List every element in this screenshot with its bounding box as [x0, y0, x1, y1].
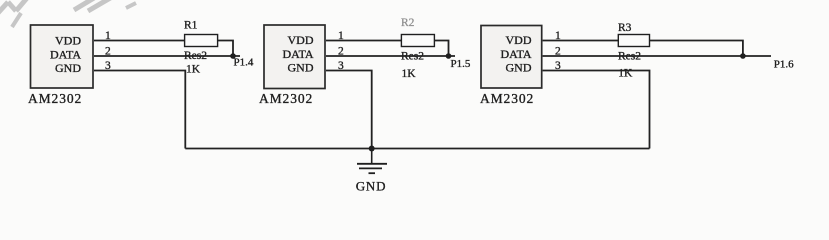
- svg-text:DATA: DATA: [500, 47, 531, 61]
- resistor R1: [185, 35, 218, 47]
- junction dot at P1.4 node: [230, 53, 236, 59]
- AM2302 module 1 body: [31, 25, 94, 88]
- wire: module2 DATA pin2 to node P1.5: [326, 55, 455, 57]
- scan artifact marks top-left (decorative): [0, 0, 136, 27]
- svg-text:DATA: DATA: [50, 48, 81, 62]
- svg-text:VDD: VDD: [506, 33, 532, 47]
- svg-text:1K: 1K: [618, 68, 633, 80]
- svg-text:AM2302: AM2302: [259, 91, 313, 106]
- svg-text:GND: GND: [506, 61, 532, 75]
- svg-text:R2: R2: [401, 17, 415, 29]
- junction dot at P1.5 node: [446, 53, 452, 59]
- wire: module2 GND pin3 right then down to ground bus: [326, 71, 372, 149]
- svg-text:GND: GND: [356, 179, 387, 194]
- svg-text:AM2302: AM2302: [480, 91, 534, 106]
- svg-text:P1.6: P1.6: [774, 59, 794, 71]
- AM2302 module 3 body: [481, 26, 542, 89]
- resistor R3: [618, 35, 649, 47]
- AM2302 module 2 body: [264, 25, 325, 89]
- wire: module3 DATA pin2 to node P1.6: [543, 55, 771, 57]
- svg-text:1K: 1K: [402, 68, 417, 80]
- wire: module3 GND pin3 right then down to ground bus: [543, 71, 650, 149]
- svg-text:VDD: VDD: [55, 34, 81, 48]
- wire: R3 right to corner then down to DATA net: [650, 41, 743, 57]
- wire: R1 right to corner then down to DATA net: [218, 41, 233, 57]
- svg-text:R3: R3: [618, 22, 632, 34]
- svg-text:P1.5: P1.5: [451, 58, 471, 70]
- wire: module1 GND pin3 right then down to ground bus: [94, 71, 185, 149]
- svg-text:1K: 1K: [186, 64, 201, 76]
- ground symbol GND: [357, 149, 387, 174]
- svg-text:P1.4: P1.4: [234, 57, 254, 69]
- svg-text:R1: R1: [184, 20, 198, 32]
- svg-text:GND: GND: [288, 61, 314, 75]
- svg-text:GND: GND: [55, 61, 81, 75]
- wire: module1 DATA pin2 to node P1.4: [94, 55, 240, 57]
- wire: module1 VDD pin1 to R1 left: [94, 40, 185, 42]
- svg-text:AM2302: AM2302: [28, 91, 82, 106]
- wire: common ground bus: [185, 148, 649, 150]
- junction dot at ground bus: [369, 146, 375, 152]
- junction dot at P1.6 node: [740, 53, 746, 59]
- resistor R2: [401, 35, 434, 47]
- wire: module2 VDD pin1 to R2 left: [326, 40, 401, 42]
- wire: module3 VDD pin1 to R3 left: [543, 40, 619, 42]
- svg-text:VDD: VDD: [288, 33, 314, 47]
- wire: R2 right to corner then down to DATA net: [434, 41, 448, 57]
- svg-text:DATA: DATA: [282, 47, 313, 61]
